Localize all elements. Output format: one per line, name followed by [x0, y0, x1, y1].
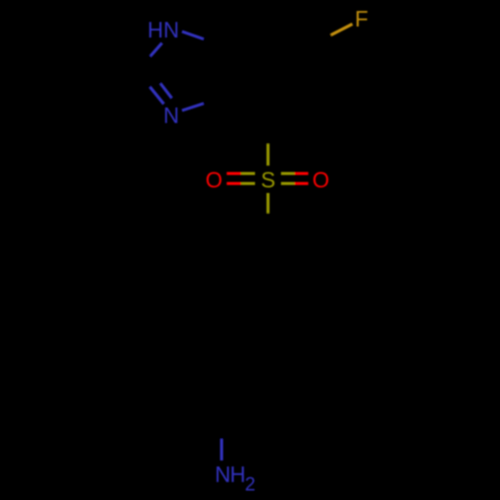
wire: bond C3'-N (blue half at N) — [220, 439, 223, 461]
wire: double bond C2=N3 outer line (carbon half, black) — [136, 70, 150, 87]
wire: double bond S=O left, upper line (olive half at S) — [241, 172, 255, 175]
svg-text:N: N — [163, 18, 179, 43]
wire: chain bonds C1'-C2'-C3' (carbon, black invisible) — [222, 248, 268, 403]
svg-text:F: F — [355, 7, 368, 32]
wire: double bond C2=N3 inner line (blue half at N3) — [161, 84, 172, 99]
wire: double bond S=O left, lower line (red half at O) — [227, 182, 241, 185]
wire: double bond S=O right, lower line (olive half at S) — [281, 182, 295, 185]
wire: bond N1-C7a (blue half at N1) — [182, 32, 204, 40]
svg-text:O: O — [312, 167, 329, 192]
wire: bond S-C1' (olive half at S) — [267, 193, 270, 213]
wire: bond N1-C7a (carbon half, black) — [204, 39, 237, 51]
svg-text:H: H — [230, 462, 246, 487]
wire: double bond S=O right, lower line (red half at O) — [295, 182, 309, 185]
wire: double bond C2=N3 inner line (carbon half, black) — [147, 67, 161, 84]
wire: benzene ring bonds (carbon, black invisible) — [236, 32, 301, 109]
wire: bond C3'-N (carbon half, black) — [220, 403, 223, 440]
wire: bond C4-S (olive half at S) — [267, 144, 270, 166]
wire: bond S-C1' (carbon half, black) — [267, 213, 270, 248]
svg-text:N: N — [215, 462, 231, 487]
wire: double bond S=O right, upper line (red half at O) — [295, 172, 309, 175]
svg-text:O: O — [206, 167, 223, 192]
wire: double bond C2=N3 outer line (blue half at N3) — [150, 87, 164, 104]
wire: bond C6-F (carbon half, black) — [301, 35, 332, 53]
wire: bond C4-S (carbon half, black) — [267, 109, 270, 144]
wire: bond N3-C3a (blue half at N3) — [182, 104, 204, 111]
svg-text:2: 2 — [245, 475, 256, 496]
wire: bond N1-C2 (blue half at N1) — [150, 43, 162, 56]
wire: double bond S=O right, upper line (olive half at S) — [281, 172, 295, 175]
svg-text:S: S — [261, 167, 276, 192]
wire: bond C6-F (goldenrod half at F) — [331, 24, 352, 35]
node N1: imidazole NH label "HN" — [148, 18, 180, 43]
svg-text:N: N — [163, 103, 179, 128]
wire: double bond S=O left, lower line (olive half at S) — [241, 182, 255, 185]
node N amine: label "NH2" — [215, 462, 256, 496]
svg-text:H: H — [148, 18, 164, 43]
wire: bond N1-C2 (carbon half, black) — [131, 56, 150, 71]
wire: bond N3-C3a (carbon half, black) — [204, 92, 237, 104]
wire: double bond S=O left, upper line (red half at O) — [227, 172, 241, 175]
